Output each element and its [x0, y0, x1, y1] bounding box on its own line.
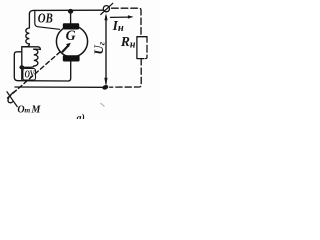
- wire hook from OV coil to node: [22, 44, 29, 47]
- label frame OU: [23, 69, 36, 81]
- field winding coil OV: [26, 28, 30, 44]
- brush top: [63, 23, 79, 29]
- svg-text:ОУ: ОУ: [25, 70, 36, 81]
- generator circle G: [56, 26, 87, 57]
- current arrow In: [111, 16, 129, 18]
- wire bottom horizontal: [15, 86, 102, 88]
- svg-text:Rн: Rн: [120, 34, 136, 51]
- wire hook OU coil bottom: [25, 66, 34, 67]
- wire left vertical above OV coil: [28, 14, 30, 28]
- stator box left: [14, 52, 21, 81]
- junction dot A: [19, 65, 24, 69]
- wire bottom return to generator: [18, 62, 71, 82]
- label frame OV: [35, 12, 60, 30]
- wire generator top stub: [70, 10, 72, 23]
- wire horizontal into OU coil: [22, 47, 40, 50]
- rotation arrow inside G: [63, 46, 69, 52]
- svg-text:Uг: Uг: [91, 41, 107, 54]
- brush bottom: [63, 55, 80, 61]
- wire vertical left mid: [21, 47, 23, 80]
- svg-text:От М: От М: [17, 105, 41, 116]
- control winding coil OU: [34, 49, 38, 66]
- node bottom: [102, 84, 109, 90]
- svg-text:а): а): [77, 113, 85, 119]
- svg-text:Iн: Iн: [112, 18, 124, 34]
- terminal tick: [101, 3, 113, 14]
- terminal circle top: [103, 6, 109, 12]
- voltage arrow Ug line: [105, 16, 107, 84]
- svg-text:G: G: [66, 28, 76, 44]
- shaft break squiggle: [8, 91, 16, 103]
- scan artifact tick: [101, 103, 105, 107]
- wire top horizontal: [29, 10, 103, 14]
- load resistor Rn dashed box: [137, 37, 147, 59]
- voltage arrow head up: [104, 13, 107, 20]
- voltage arrow head down: [104, 78, 107, 86]
- svg-text:ОВ: ОВ: [38, 11, 53, 26]
- dashed wire top right: [112, 8, 141, 36]
- dashed wire bottom right: [110, 59, 142, 87]
- junction dot top: [68, 9, 73, 14]
- shaft dashed line from motor: [8, 52, 61, 98]
